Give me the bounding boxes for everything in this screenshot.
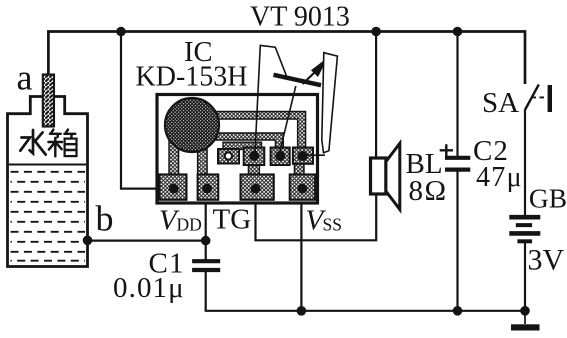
water dashes xyxy=(11,172,86,261)
svg-text:SS: SS xyxy=(323,215,342,235)
wire TG pad down to C1 xyxy=(205,196,207,260)
wire VDD branch left rail xyxy=(121,32,165,189)
pad dot D xyxy=(297,151,307,161)
wire node b to TG xyxy=(88,240,206,242)
wire speaker top branch xyxy=(375,32,377,160)
node dot top C2 xyxy=(453,27,463,37)
transistor emitter arrow xyxy=(303,73,315,85)
svg-text:8Ω: 8Ω xyxy=(409,175,448,207)
svg-text:GB: GB xyxy=(529,183,567,214)
svg-text:47μ: 47μ xyxy=(476,162,523,193)
wire VSS pad down to ground rail xyxy=(300,200,302,311)
node b dot xyxy=(83,236,93,246)
trace to pad C (second) xyxy=(213,133,283,149)
node dot b/TG/C1 junction xyxy=(201,236,211,246)
ground stub xyxy=(524,311,526,324)
middle pad A xyxy=(218,149,239,164)
pad dot P3 xyxy=(251,184,261,194)
speaker BL coil box xyxy=(371,158,386,194)
transistor VT9013 collector lead outline xyxy=(255,45,287,154)
svg-text:DD: DD xyxy=(177,215,202,235)
middle pad C xyxy=(271,148,290,166)
node dot ground rail right xyxy=(520,306,530,316)
node dot C2 on ground rail xyxy=(453,306,463,316)
transistor base bar xyxy=(274,75,322,85)
pad dot B xyxy=(249,151,259,161)
wire battery to ground rail xyxy=(524,243,526,312)
svg-text:3V: 3V xyxy=(528,243,565,276)
bottom pad P1 VDD xyxy=(160,174,187,199)
label 水 (custom glyph) xyxy=(20,130,45,155)
chip blob circle xyxy=(165,98,219,152)
IC module board KD-153H xyxy=(157,95,318,204)
ground bar xyxy=(511,324,540,330)
capacitor C1 plates xyxy=(192,261,220,270)
switch SA contact bar xyxy=(548,85,552,112)
svg-text:TG: TG xyxy=(213,204,252,236)
pad dot P1 xyxy=(169,184,179,194)
wire C2 top branch xyxy=(456,32,458,158)
pad D lead-out line xyxy=(303,154,325,156)
transistor emitter lead outline xyxy=(322,53,338,153)
middle pad D xyxy=(293,148,313,164)
middle pad B xyxy=(244,148,265,166)
node dot top speaker xyxy=(371,27,381,37)
trace to pad D (top) xyxy=(213,112,306,149)
trace bridge A-B xyxy=(223,142,262,149)
pad A ring xyxy=(225,152,232,159)
transistor base lead line xyxy=(279,86,296,155)
svg-text:0.01μ: 0.01μ xyxy=(113,272,185,304)
wire C2 bottom xyxy=(456,171,458,311)
water tank outline xyxy=(8,97,88,267)
bottom pad P4 VSS xyxy=(290,174,315,199)
svg-text:b: b xyxy=(96,199,114,239)
svg-text:VT 9013: VT 9013 xyxy=(250,1,350,32)
svg-text:KD-153H: KD-153H xyxy=(136,62,248,93)
capacitor C2 plus sign xyxy=(440,144,453,156)
node dot VSS on ground rail xyxy=(297,306,307,316)
water surface line xyxy=(9,164,86,166)
pad dot P4 xyxy=(298,184,308,194)
wire top rail from electrode a to switch SA xyxy=(48,32,525,85)
trace chip to pad P2 xyxy=(198,138,208,176)
switch SA blade xyxy=(525,85,539,110)
pad dot P2 xyxy=(202,184,212,194)
wire C1 bottom to ground rail xyxy=(206,272,525,311)
node dot top-left VDD xyxy=(116,27,126,37)
label 箱 (custom glyph) xyxy=(48,130,76,157)
bottom pad P2 TG xyxy=(198,174,219,199)
trace pad D to P4 xyxy=(294,164,304,177)
trace pad B to P3 xyxy=(248,165,259,177)
speaker BL cone xyxy=(386,143,400,209)
svg-text:SA: SA xyxy=(482,87,519,119)
bottom pad P3 xyxy=(241,174,274,199)
battery GB plates xyxy=(509,215,540,220)
wire SA to battery xyxy=(524,109,526,215)
electrode a rod xyxy=(43,75,54,127)
switch SA dashed link xyxy=(532,96,548,98)
pad dot C xyxy=(275,151,285,161)
trace chip to pad P1 xyxy=(169,138,179,176)
capacitor C2 plates xyxy=(445,158,470,170)
svg-text:a: a xyxy=(17,58,33,98)
wire IC pad3 to speaker bottom xyxy=(256,193,377,240)
